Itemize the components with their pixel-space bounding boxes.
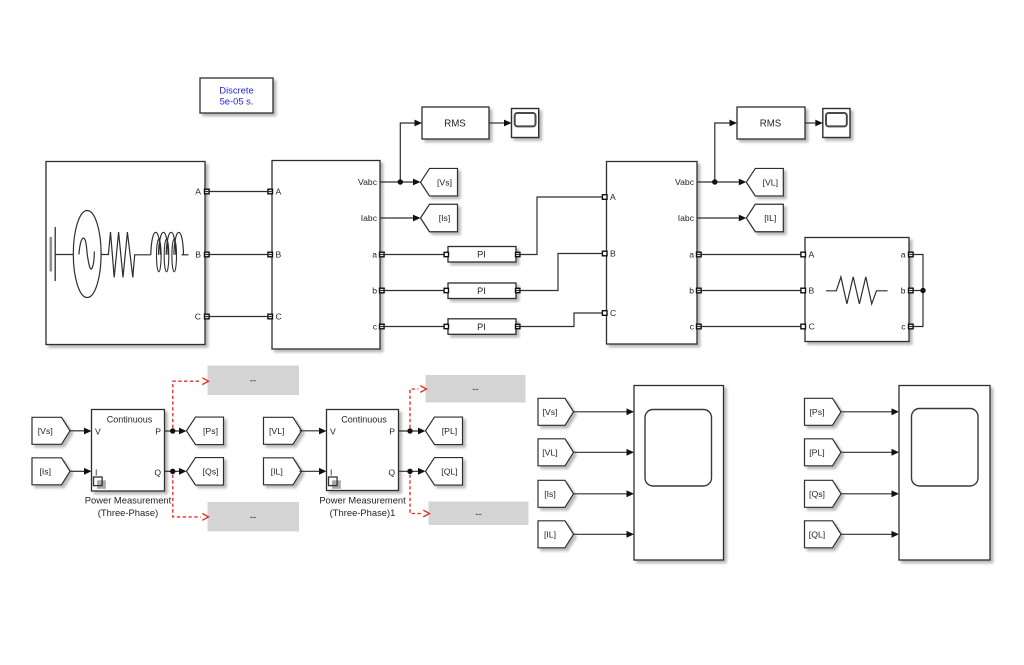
svg-text:Iabc: Iabc xyxy=(678,213,695,223)
svg-text:Discrete: Discrete xyxy=(219,85,253,96)
wire PI1 to B2 A xyxy=(516,197,607,255)
svg-text:[Vs]: [Vs] xyxy=(38,426,53,436)
scope block (P/Q powers) xyxy=(899,386,990,561)
svg-text:V: V xyxy=(330,426,336,436)
B2 port A xyxy=(602,195,607,200)
three-phase programmable voltage source xyxy=(46,162,205,345)
svg-text:c: c xyxy=(901,322,906,332)
svg-text:a: a xyxy=(901,250,906,260)
svg-text:[QL]: [QL] xyxy=(809,530,825,540)
wire IL to PM2 I xyxy=(300,468,327,475)
three-phase series RLC load xyxy=(805,238,909,342)
B2 port c xyxy=(697,324,702,329)
from tag [Is] (scope) xyxy=(538,480,574,507)
PI section line 1 xyxy=(448,247,516,263)
svg-text:RMS: RMS xyxy=(444,119,466,130)
wire source C to B1 C xyxy=(205,316,272,318)
source port C xyxy=(205,314,210,319)
svg-text:[IL]: [IL] xyxy=(544,530,556,540)
svg-text:(Three-Phase): (Three-Phase) xyxy=(98,507,158,518)
power measurement block PM1 xyxy=(92,410,165,492)
from tag [VL] (scope) xyxy=(538,439,574,466)
from tag [Ps] (scope) xyxy=(805,398,842,425)
goto tag [QL] xyxy=(426,458,463,486)
svg-text:A: A xyxy=(195,187,201,197)
svg-text:RMS: RMS xyxy=(760,119,782,130)
PI2 in port xyxy=(444,288,448,292)
svg-text:P: P xyxy=(155,426,161,436)
wire Is to scope1 xyxy=(574,490,635,497)
scope (small) 1 xyxy=(512,109,539,138)
svg-text:B: B xyxy=(195,250,201,260)
svg-text:Continuous: Continuous xyxy=(107,414,153,424)
svg-text:Q: Q xyxy=(388,467,395,477)
svg-text:(Three-Phase)1: (Three-Phase)1 xyxy=(330,507,396,518)
svg-text:I: I xyxy=(95,467,97,477)
svg-text:[VL]: [VL] xyxy=(542,448,557,458)
svg-text:c: c xyxy=(373,322,378,332)
svg-text:Power Measurement: Power Measurement xyxy=(85,495,172,506)
source port A xyxy=(205,189,210,194)
wire B2 c to load C xyxy=(697,326,805,328)
display block D3 xyxy=(426,375,526,403)
svg-text:Continuous: Continuous xyxy=(341,414,387,424)
wire B2 b to load B xyxy=(697,290,805,292)
svg-text:[IL]: [IL] xyxy=(271,467,283,477)
svg-text:PI: PI xyxy=(477,322,486,332)
goto tag [Qs] xyxy=(187,458,224,486)
svg-text:a: a xyxy=(372,250,377,260)
svg-text:c: c xyxy=(690,322,695,332)
svg-text:Power Measurement: Power Measurement xyxy=(319,495,406,506)
svg-text:[Qs]: [Qs] xyxy=(203,467,219,477)
PI3 in port xyxy=(444,324,448,328)
load port c xyxy=(909,324,914,329)
svg-text:[VL]: [VL] xyxy=(269,426,284,436)
B1 port C xyxy=(268,314,273,319)
B2 port a xyxy=(697,252,702,257)
svg-text:b: b xyxy=(689,286,694,296)
source port B xyxy=(205,252,210,257)
PI1 out port xyxy=(516,252,520,256)
display block D1 xyxy=(208,366,300,396)
svg-text:[Vs]: [Vs] xyxy=(437,177,452,187)
load neutral loop wire xyxy=(909,255,926,327)
load port b xyxy=(909,288,914,293)
load port B xyxy=(801,288,806,293)
wire Vs to PM1 V xyxy=(70,428,92,435)
display block D2 xyxy=(208,502,300,532)
svg-text:Vabc: Vabc xyxy=(358,177,378,187)
wire B1 c to PI3 xyxy=(380,326,448,328)
PI section line 2 xyxy=(448,283,516,299)
svg-text:--: -- xyxy=(475,509,481,520)
svg-text:5e-05 s.: 5e-05 s. xyxy=(220,96,254,107)
red signal line P to D3 xyxy=(410,386,427,428)
svg-text:[PL]: [PL] xyxy=(809,448,824,458)
svg-text:[Qs]: [Qs] xyxy=(809,489,825,499)
wire B1 b to PI2 xyxy=(380,290,448,292)
from tag [IL] (scope) xyxy=(538,521,574,548)
svg-text:[VL]: [VL] xyxy=(763,177,778,187)
B1 port a xyxy=(380,252,385,257)
svg-text:B: B xyxy=(276,250,282,260)
wire VL to PM2 V xyxy=(300,428,327,435)
wire VL to scope1 xyxy=(574,449,635,456)
goto tag [Is] xyxy=(421,204,458,232)
wire PM1 Q to goto Qs xyxy=(165,468,187,475)
from tag [Vs] xyxy=(32,417,70,444)
from tag [Is] xyxy=(32,458,70,485)
svg-text:[Ps]: [Ps] xyxy=(810,407,825,417)
svg-text:[Is]: [Is] xyxy=(439,213,451,223)
svg-text:B: B xyxy=(610,249,616,259)
wire Vabc2 to goto VL xyxy=(697,179,746,186)
red signal line Q to D2 xyxy=(173,475,209,521)
from tag [PL] (scope) xyxy=(805,439,842,466)
svg-text:--: -- xyxy=(250,512,256,523)
svg-text:B: B xyxy=(809,286,815,296)
svg-text:b: b xyxy=(372,286,377,296)
goto tag [Ps] xyxy=(187,417,224,445)
svg-text:b: b xyxy=(901,286,906,296)
wire Qs to scope2 xyxy=(842,490,900,497)
wire Vs to scope1 xyxy=(574,408,635,415)
svg-text:Vabc: Vabc xyxy=(675,177,695,187)
wire RMS2 to scope xyxy=(805,120,823,127)
load port C xyxy=(801,324,806,329)
from tag [Qs] (scope) xyxy=(805,480,842,507)
scope (small) 2 xyxy=(823,109,850,138)
B2 port C xyxy=(602,311,607,316)
PM2 caption xyxy=(319,495,406,519)
wire Is to PM1 I xyxy=(70,468,92,475)
svg-text:C: C xyxy=(610,308,616,318)
wire Ps to scope2 xyxy=(842,408,900,415)
goto tag [IL] xyxy=(746,204,783,232)
wire PM2 Q to goto QL xyxy=(399,468,426,475)
wire IL to scope1 xyxy=(574,531,635,538)
from tag [VL] xyxy=(264,417,302,444)
svg-text:A: A xyxy=(276,187,282,197)
wire PM2 P to goto PL xyxy=(399,428,426,435)
B1 port A xyxy=(268,189,273,194)
wire PM1 P to goto Ps xyxy=(165,428,187,435)
wire QL to scope2 xyxy=(842,531,900,538)
goto tag [PL] xyxy=(426,417,463,445)
sample-time annotation 'Discrete 5e-05 s.' xyxy=(200,78,273,113)
svg-text:C: C xyxy=(195,312,201,322)
svg-text:--: -- xyxy=(250,376,256,387)
svg-text:[Vs]: [Vs] xyxy=(543,407,558,417)
svg-text:--: -- xyxy=(472,384,478,395)
display block D4 xyxy=(429,502,529,526)
from tag [Vs] (scope) xyxy=(538,398,574,425)
wire RMS1 to scope xyxy=(489,120,512,127)
three-phase V-I measurement block 2 xyxy=(607,162,698,345)
svg-text:C: C xyxy=(276,312,282,322)
wire source B to B1 B xyxy=(205,254,272,256)
svg-text:a: a xyxy=(689,250,694,260)
from tag [IL] xyxy=(264,458,302,485)
svg-text:[IL]: [IL] xyxy=(764,213,776,223)
red signal line P to D1 xyxy=(173,378,209,428)
B2 port b xyxy=(697,288,702,293)
three-phase V-I measurement block 1 xyxy=(272,161,380,350)
goto tag [VL] xyxy=(746,168,783,196)
svg-text:[Is]: [Is] xyxy=(544,489,556,499)
wire Iabc2 to goto IL xyxy=(697,215,746,222)
svg-text:V: V xyxy=(95,426,101,436)
svg-text:PI: PI xyxy=(477,286,486,296)
wire PL to scope2 xyxy=(842,449,900,456)
PM1 caption xyxy=(85,495,172,519)
svg-text:A: A xyxy=(610,192,616,202)
wire B2 a to load A xyxy=(697,254,805,256)
block RMS1 xyxy=(422,107,489,139)
wire Vabc to RMS1 xyxy=(400,120,422,182)
svg-text:[PL]: [PL] xyxy=(442,426,457,436)
PI2 out port xyxy=(516,288,520,292)
power measurement block PM2 xyxy=(327,410,399,491)
svg-text:[Ps]: [Ps] xyxy=(203,426,218,436)
wire PI2 to B2 B xyxy=(516,254,607,291)
wire Vabc2 to RMS2 xyxy=(715,120,737,182)
PI section line 3 xyxy=(448,319,516,335)
svg-text:Iabc: Iabc xyxy=(361,213,378,223)
svg-text:Q: Q xyxy=(154,467,161,477)
wire PI3 to B2 C xyxy=(516,313,607,327)
B2 port B xyxy=(602,251,607,256)
svg-text:PI: PI xyxy=(477,250,486,260)
wire Vabc to goto Vs xyxy=(380,179,421,186)
wire B1 a to PI1 xyxy=(380,254,448,256)
from tag [QL] (scope) xyxy=(805,521,842,548)
load port A xyxy=(801,252,806,257)
block RMS2 xyxy=(737,107,805,139)
wire Iabc to goto Is xyxy=(380,215,421,222)
goto tag [Vs] xyxy=(421,168,458,196)
B1 port b xyxy=(380,288,385,293)
svg-text:A: A xyxy=(809,250,815,260)
wire source A to B1 A xyxy=(205,191,272,193)
svg-text:C: C xyxy=(809,322,815,332)
svg-text:I: I xyxy=(330,467,332,477)
svg-text:[QL]: [QL] xyxy=(441,467,457,477)
svg-text:[Is]: [Is] xyxy=(39,467,51,477)
B1 port B xyxy=(268,252,273,257)
svg-text:P: P xyxy=(389,426,395,436)
PI3 out port xyxy=(516,324,520,328)
PI1 in port xyxy=(444,252,448,256)
load port a xyxy=(909,252,914,257)
red signal line Q to D4 xyxy=(410,475,430,517)
B1 port c xyxy=(380,324,385,329)
scope block (voltages/currents) xyxy=(634,386,724,561)
